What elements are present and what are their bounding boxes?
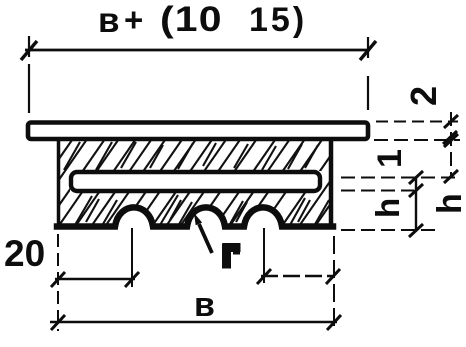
bar (embedded plank) (71, 172, 320, 191)
extension line, plate bottom level (374, 139, 460, 141)
extension line, below block right edge (333, 236, 335, 331)
extension line, bar top level (341, 177, 456, 179)
svg-text:h: h (369, 198, 406, 218)
block bottom edge with notch arches (57, 207, 333, 226)
extension line, top dimension right (367, 37, 369, 110)
value label "2" (403, 86, 444, 106)
extension line, below groove 3 centre (263, 228, 265, 283)
hatched block body (0, 135, 398, 233)
svg-text:в: в (98, 1, 120, 40)
svg-text:1: 1 (371, 149, 409, 168)
block left edge (57, 139, 61, 229)
svg-text:20: 20 (4, 233, 45, 274)
extension line, below block left edge (57, 234, 59, 331)
leader arrow for groove radius (194, 213, 212, 253)
extension line, top dimension left (28, 36, 30, 113)
dimension line, groove 3 to right edge, with tick marks (257, 269, 340, 284)
value label "в + (10 15)" (98, 1, 307, 40)
dimension line, overall top width (25, 49, 370, 52)
svg-text:в: в (194, 286, 215, 324)
extension line, bar bottom level (341, 190, 414, 192)
dimension line "20" with tick marks (51, 272, 139, 287)
sketchy double strokes (96, 142, 112, 170)
value label "h" right (431, 193, 466, 214)
top plate (sill board) (28, 123, 368, 140)
block right edge (329, 139, 334, 229)
extension line, plate top level (376, 121, 458, 123)
svg-text:15): 15) (249, 1, 307, 39)
svg-text:+: + (124, 1, 143, 38)
extension line, below groove 1 centre (131, 228, 133, 287)
tick mark, top dimension right end (360, 41, 376, 60)
extension line, block bottom level right (341, 229, 438, 231)
svg-text:(10: (10 (160, 1, 223, 40)
dimension chain for "h" with tick marks (409, 171, 423, 237)
dimension line "в" overall bottom width, with tick marks (50, 315, 341, 330)
svg-text:2: 2 (403, 86, 444, 106)
svg-text:h: h (431, 193, 466, 214)
value label "h" left (369, 198, 406, 218)
value label "r" (blocky hand glyph) (227, 247, 237, 264)
value label "1" (371, 149, 409, 168)
dimension chain for "2" and "1" with tick marks (443, 112, 458, 183)
tick mark, top dimension left end (21, 41, 37, 60)
